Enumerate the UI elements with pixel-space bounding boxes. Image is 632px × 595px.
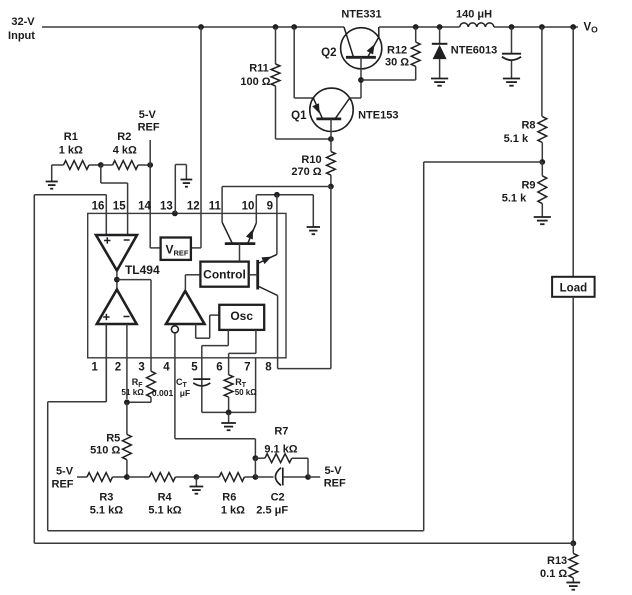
- svg-text:R13: R13: [547, 555, 567, 567]
- svg-text:R8: R8: [521, 120, 535, 132]
- svg-text:1 kΩ: 1 kΩ: [221, 505, 245, 517]
- svg-text:5.1 kΩ: 5.1 kΩ: [148, 505, 181, 517]
- svg-text:R4: R4: [158, 492, 173, 504]
- svg-text:Q2: Q2: [321, 47, 336, 59]
- svg-text:R3: R3: [99, 492, 113, 504]
- svg-text:1: 1: [91, 361, 98, 373]
- svg-text:15: 15: [113, 200, 126, 212]
- svg-text:12: 12: [187, 200, 200, 212]
- svg-text:R12: R12: [387, 44, 407, 56]
- svg-text:30 Ω: 30 Ω: [385, 56, 409, 68]
- svg-text:51 kΩ: 51 kΩ: [121, 388, 144, 397]
- svg-text:μF: μF: [180, 388, 190, 398]
- svg-text:Load: Load: [560, 283, 587, 295]
- svg-text:7: 7: [244, 361, 250, 373]
- svg-text:Input: Input: [8, 30, 35, 42]
- svg-text:R2: R2: [117, 131, 131, 143]
- svg-text:2: 2: [115, 361, 121, 373]
- svg-text:R9: R9: [521, 180, 535, 192]
- svg-text:3: 3: [138, 361, 144, 373]
- svg-text:4 kΩ: 4 kΩ: [113, 145, 137, 157]
- svg-text:11: 11: [209, 200, 222, 212]
- svg-text:5-V: 5-V: [56, 466, 74, 478]
- svg-text:TL494: TL494: [125, 263, 160, 277]
- svg-text:Osc: Osc: [230, 309, 253, 323]
- svg-text:5.1 k: 5.1 k: [502, 193, 527, 205]
- svg-text:5-V: 5-V: [139, 109, 157, 121]
- svg-text:Control: Control: [203, 268, 246, 282]
- svg-text:NTE331: NTE331: [341, 9, 381, 21]
- svg-text:5-V: 5-V: [324, 465, 342, 477]
- svg-text:0.001: 0.001: [152, 388, 174, 398]
- svg-text:R1: R1: [64, 131, 78, 143]
- svg-text:R10: R10: [301, 154, 321, 166]
- svg-text:6: 6: [216, 361, 222, 373]
- svg-text:50 kΩ: 50 kΩ: [235, 388, 258, 397]
- svg-text:2.5 μF: 2.5 μF: [256, 505, 288, 517]
- svg-text:32-V: 32-V: [11, 16, 35, 28]
- svg-text:270 Ω: 270 Ω: [291, 166, 321, 178]
- svg-text:R5: R5: [106, 433, 120, 445]
- svg-text:100 Ω: 100 Ω: [240, 76, 270, 88]
- svg-text:R7: R7: [274, 426, 288, 438]
- svg-text:REF: REF: [324, 478, 346, 490]
- svg-text:140 μH: 140 μH: [456, 8, 492, 20]
- svg-text:510 Ω: 510 Ω: [90, 445, 120, 457]
- svg-text:REF: REF: [52, 479, 74, 491]
- svg-text:R6: R6: [222, 492, 236, 504]
- svg-text:5.1 k: 5.1 k: [504, 133, 529, 145]
- svg-text:REF: REF: [138, 122, 160, 134]
- svg-text:5.1 kΩ: 5.1 kΩ: [90, 505, 123, 517]
- svg-text:8: 8: [265, 361, 272, 373]
- svg-text:9.1 kΩ: 9.1 kΩ: [264, 443, 297, 455]
- svg-text:5: 5: [191, 361, 198, 373]
- svg-text:Q1: Q1: [291, 110, 307, 122]
- svg-text:0.1 Ω: 0.1 Ω: [540, 568, 567, 580]
- svg-text:1 kΩ: 1 kΩ: [59, 145, 83, 157]
- svg-text:C2: C2: [271, 492, 285, 504]
- svg-text:14: 14: [138, 200, 151, 212]
- svg-text:4: 4: [163, 361, 170, 373]
- svg-text:16: 16: [92, 200, 105, 212]
- svg-text:13: 13: [160, 200, 173, 212]
- svg-text:NTE6013: NTE6013: [451, 44, 497, 56]
- svg-text:10: 10: [242, 200, 255, 212]
- svg-text:R11: R11: [249, 63, 269, 75]
- svg-text:9: 9: [267, 200, 273, 212]
- svg-text:NTE153: NTE153: [358, 110, 398, 122]
